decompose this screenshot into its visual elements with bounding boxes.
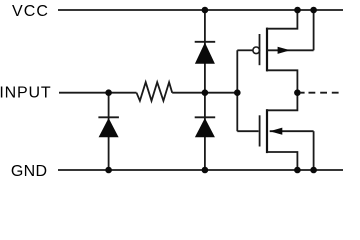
node input-D1 junction — [105, 89, 112, 96]
n-channel MOSFET Q2 — [237, 93, 313, 170]
resistor R1 — [137, 82, 173, 101]
svg-text:VCC: VCC — [12, 3, 49, 20]
svg-text:GND: GND — [11, 163, 47, 180]
node VCC-D2 junction — [202, 7, 209, 14]
node GND-bulk junction — [310, 167, 317, 174]
node output junction — [294, 89, 301, 96]
wire INPUT rail right segment — [172, 92, 237, 94]
wire dashed output continuation — [301, 92, 339, 94]
diode D3 clamp to GND — [195, 93, 216, 170]
node mid junction — [202, 89, 209, 96]
diode D1 input clamp to GND — [98, 93, 119, 170]
wire GND rail — [58, 169, 343, 171]
node VCC-source junction — [294, 7, 301, 14]
node gate junction — [234, 89, 241, 96]
node VCC-bulk junction — [310, 7, 317, 14]
node GND-D1 junction — [105, 167, 112, 174]
node GND-D3 junction — [202, 167, 209, 174]
wire gate stem from input node — [236, 50, 238, 131]
wire INPUT rail left segment — [59, 92, 137, 94]
wire VCC rail — [58, 9, 343, 11]
p-channel MOSFET Q1 — [237, 10, 313, 93]
diode D2 clamp to VCC — [195, 10, 216, 93]
svg-text:INPUT: INPUT — [0, 85, 51, 102]
node GND-source junction — [294, 167, 301, 174]
